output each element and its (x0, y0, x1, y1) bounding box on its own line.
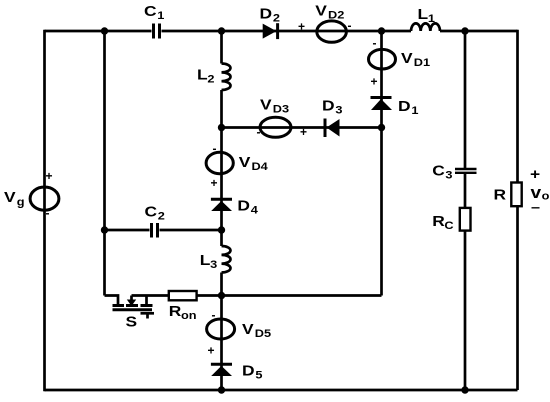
svg-text:4: 4 (251, 204, 258, 217)
source VD4 (206, 152, 233, 173)
wire left rail (43, 30, 46, 392)
wire D1 branch vertical (380, 31, 383, 296)
svg-text:V: V (315, 2, 327, 19)
svg-text:3: 3 (210, 258, 217, 271)
svg-text:3: 3 (445, 168, 452, 181)
resistor RC (460, 208, 471, 231)
label Ron (169, 303, 197, 322)
svg-text:V: V (401, 50, 413, 67)
diode D5 (211, 364, 232, 376)
svg-text:V: V (4, 189, 16, 206)
plus of vo (530, 166, 540, 183)
node junction D3 right (378, 124, 385, 131)
node junction top C2 rail (101, 27, 108, 34)
label S (126, 314, 138, 331)
plus of VD5 (208, 344, 215, 358)
node junction C2 left (101, 226, 108, 233)
inductor L1 (411, 23, 440, 31)
label D5 (242, 363, 263, 382)
svg-text:C: C (144, 3, 157, 20)
minus of Vg (46, 206, 50, 220)
svg-text:V: V (242, 321, 254, 338)
svg-text:S: S (126, 314, 138, 331)
node junction bottom C3 (461, 386, 468, 393)
svg-text:-: - (348, 19, 352, 33)
label C1 (144, 3, 165, 22)
svg-text:1: 1 (428, 12, 435, 25)
svg-text:–: – (531, 199, 540, 215)
wire D3 row (222, 126, 382, 129)
svg-text:L: L (197, 67, 208, 84)
capacitor C3 (455, 169, 477, 173)
svg-text:+: + (46, 169, 53, 183)
svg-text:C: C (145, 204, 158, 221)
plus of Vg (46, 169, 53, 183)
source VD3 (260, 117, 291, 137)
svg-text:3: 3 (335, 104, 342, 117)
node junction top C3 branch (461, 27, 468, 34)
label L3 (200, 252, 218, 271)
wire C2 row (105, 229, 222, 232)
svg-text:2: 2 (273, 11, 280, 24)
svg-text:R: R (432, 213, 445, 230)
resistor R load (511, 183, 521, 207)
label R (494, 186, 507, 203)
label D3 (322, 98, 343, 117)
svg-text:2: 2 (158, 209, 165, 222)
label VD3 (260, 97, 289, 116)
wire C3 branch vertical (464, 31, 467, 390)
svg-text:R: R (169, 303, 182, 320)
node junction C2 right (218, 226, 225, 233)
source VD5 (207, 319, 235, 339)
minus of VD4 (213, 142, 217, 156)
node junction switch row (218, 292, 225, 299)
node junction D3 left (218, 124, 225, 131)
wire switch row (132, 294, 382, 297)
svg-text:+: + (211, 176, 218, 190)
label C3 (432, 162, 453, 181)
svg-text:1: 1 (411, 104, 418, 117)
svg-text:5: 5 (255, 369, 262, 382)
svg-text:D: D (242, 363, 255, 380)
svg-text:+: + (530, 166, 540, 183)
source VD2 (317, 21, 347, 42)
plus of VD4 (211, 176, 218, 190)
label VD1 (401, 50, 430, 69)
svg-text:C: C (444, 219, 454, 232)
wire right rail (516, 30, 519, 390)
diode D3 (325, 119, 340, 138)
label VD5 (242, 321, 271, 340)
minus of VD5 (212, 308, 216, 322)
svg-text:V: V (239, 154, 251, 171)
inductor L3 (222, 246, 231, 273)
label VD4 (239, 154, 268, 173)
svg-text:g: g (17, 195, 25, 208)
label RC (432, 213, 454, 232)
label vo (531, 183, 550, 202)
svg-text:D1: D1 (414, 56, 431, 69)
svg-text:o: o (542, 189, 550, 202)
svg-text:D2: D2 (328, 8, 345, 21)
wire top rail (45, 30, 518, 33)
label VD2 (315, 2, 344, 21)
svg-text:L: L (200, 252, 211, 269)
svg-text:D: D (260, 6, 273, 23)
wire second vertical rail (103, 31, 106, 296)
source VD1 (369, 49, 396, 69)
transistor S mosfet switch (105, 296, 155, 319)
svg-text:-: - (46, 206, 50, 220)
svg-text:on: on (181, 309, 197, 322)
minus of VD3 (257, 125, 261, 139)
svg-text:D4: D4 (251, 160, 268, 173)
plus of VD1 (371, 75, 378, 89)
label L1 (418, 6, 436, 25)
label D1 (398, 98, 419, 117)
svg-text:+: + (371, 75, 378, 89)
label D4 (237, 198, 258, 217)
svg-text:R: R (494, 186, 507, 203)
node junction bottom middle (218, 386, 225, 393)
svg-text:D3: D3 (273, 102, 290, 115)
diode D1 (371, 98, 393, 111)
capacitor C1 (154, 24, 160, 39)
svg-text:1: 1 (157, 9, 164, 22)
minus of vo (531, 199, 540, 215)
diode D4 (211, 199, 232, 211)
svg-text:2: 2 (207, 72, 214, 85)
svg-text:D: D (322, 98, 335, 115)
label C2 (145, 204, 166, 223)
inductor L2 (222, 64, 231, 91)
svg-text:V: V (260, 97, 272, 114)
svg-text:L: L (418, 6, 429, 23)
resistor Ron (169, 291, 197, 300)
node junction top D1 branch (378, 27, 385, 34)
svg-text:+: + (208, 344, 215, 358)
label L2 (197, 67, 215, 86)
node junction top middle rail (218, 27, 225, 34)
svg-text:+: + (300, 125, 307, 139)
plus of VD3 (300, 125, 307, 139)
minus of VD1 (373, 36, 377, 50)
svg-text:D: D (398, 98, 411, 115)
svg-text:+: + (298, 20, 305, 34)
plus of VD2 (298, 20, 305, 34)
svg-text:C: C (432, 162, 445, 179)
svg-text:D5: D5 (255, 327, 272, 340)
diode D2 (263, 23, 278, 39)
capacitor C2 (152, 223, 158, 238)
source Vg (30, 187, 59, 210)
label D2 (260, 6, 281, 25)
minus of VD2 (348, 19, 352, 33)
svg-text:-: - (373, 36, 377, 50)
svg-text:D: D (237, 198, 250, 215)
wire middle vertical rail (220, 31, 223, 390)
wire bottom rail (45, 389, 518, 392)
label Vg (4, 189, 25, 208)
